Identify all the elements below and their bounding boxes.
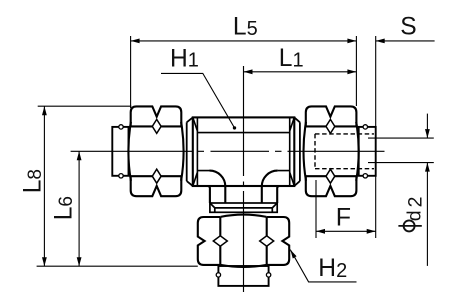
svg-text:2: 2 — [405, 197, 427, 208]
svg-text:S: S — [400, 13, 416, 40]
svg-text:F: F — [336, 204, 351, 232]
svg-text:d: d — [404, 210, 426, 221]
svg-text:L5: L5 — [233, 13, 258, 40]
svg-text:L1: L1 — [279, 45, 304, 72]
svg-text:H2: H2 — [318, 255, 347, 282]
svg-text:H1: H1 — [170, 45, 199, 72]
